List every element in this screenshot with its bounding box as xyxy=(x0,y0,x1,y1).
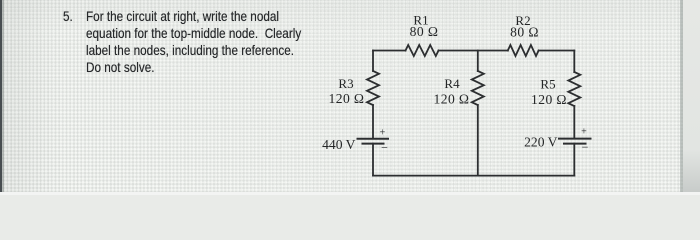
svg-text:R5: R5 xyxy=(540,77,555,92)
svg-text:440 V: 440 V xyxy=(322,137,356,152)
svg-text:R4: R4 xyxy=(444,76,460,91)
svg-text:+: + xyxy=(380,128,386,139)
svg-text:R3: R3 xyxy=(338,76,353,91)
svg-text:120 Ω: 120 Ω xyxy=(531,92,567,107)
svg-text:80 Ω: 80 Ω xyxy=(410,24,439,39)
svg-text:−: − xyxy=(381,140,388,154)
svg-text:120 Ω: 120 Ω xyxy=(329,91,365,106)
svg-text:80 Ω: 80 Ω xyxy=(510,25,539,40)
svg-text:−: − xyxy=(582,140,589,154)
svg-text:+: + xyxy=(581,127,587,138)
svg-text:220 V: 220 V xyxy=(524,135,558,150)
svg-text:120 Ω: 120 Ω xyxy=(434,92,470,107)
